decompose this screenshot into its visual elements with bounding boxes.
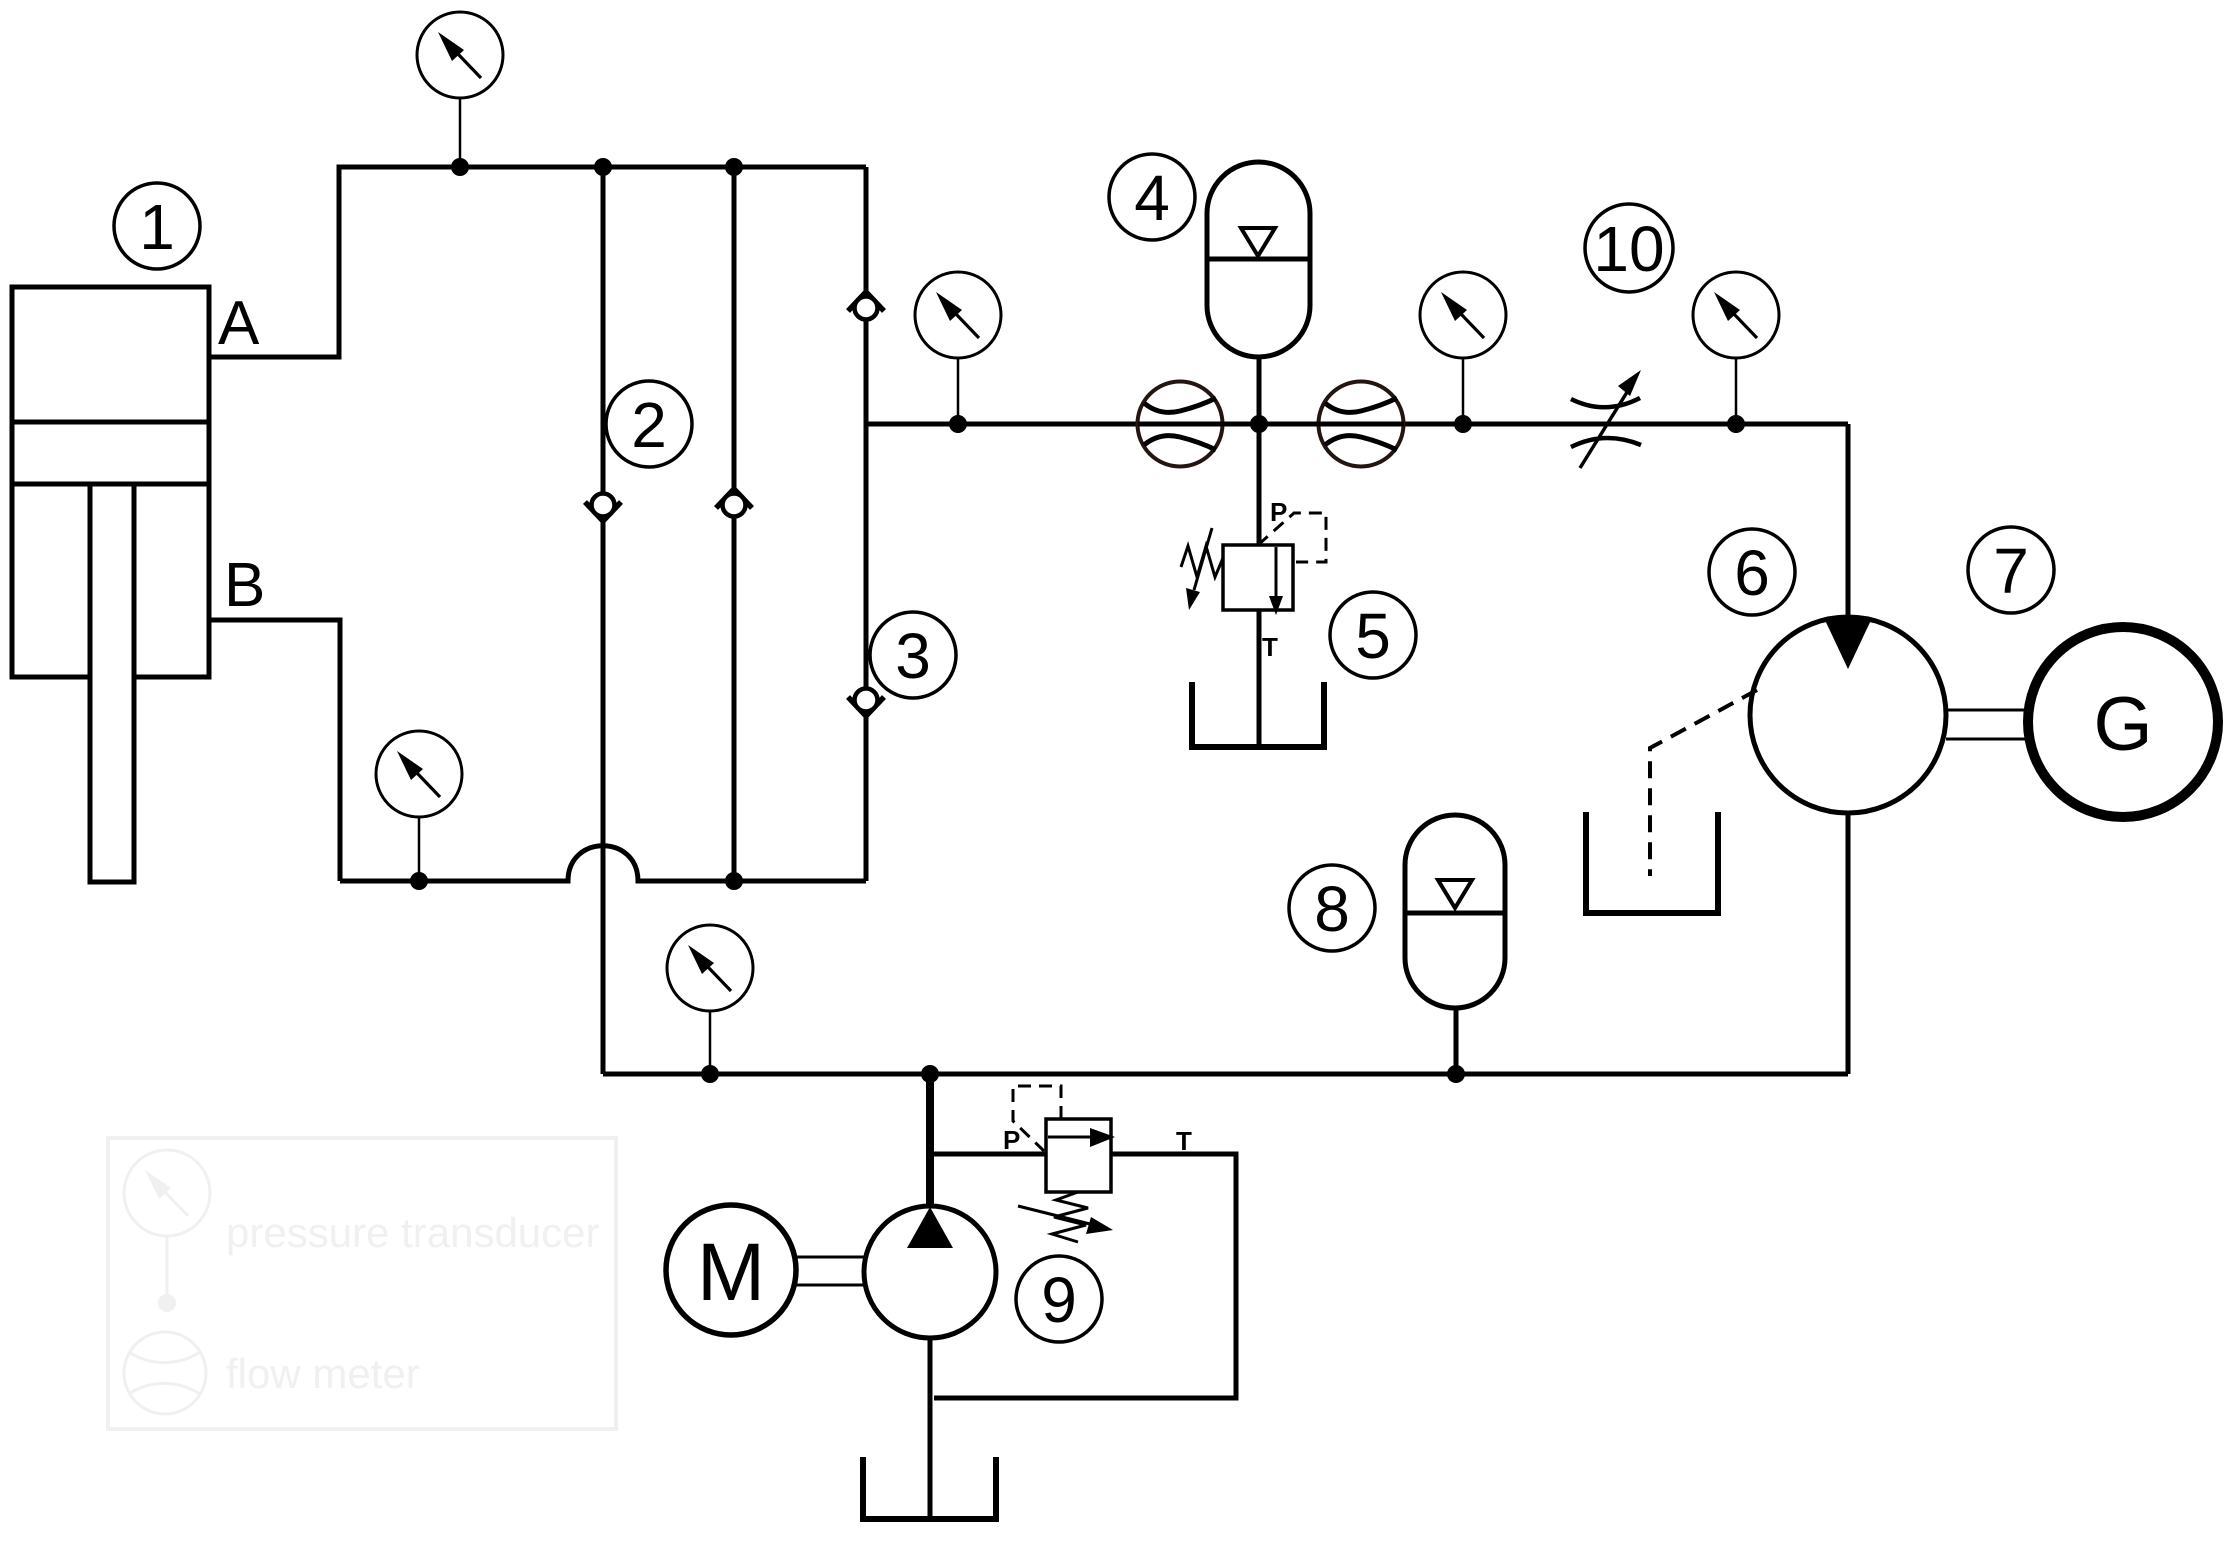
gauge stem node top rail — [459, 98, 462, 167]
variable restrictor 10 adjustment arrow — [1580, 389, 1629, 468]
wire valve 5 to tank — [1257, 610, 1262, 745]
tank symbol under valve 5 — [1192, 682, 1324, 747]
svg-text:7: 7 — [1993, 535, 2029, 607]
electric motor M — [666, 1205, 796, 1335]
wire relief valve 9 P branch — [930, 1152, 1046, 1157]
svg-text:9: 9 — [1041, 1264, 1077, 1336]
relief valve 9 body — [1046, 1119, 1111, 1192]
component label 8 — [1289, 865, 1375, 951]
junction dot mid rail gauge G3 — [1454, 415, 1472, 433]
svg-text:B: B — [224, 551, 265, 620]
hydraulic cylinder 1 — [12, 287, 209, 882]
wire check-valve branch right (x=866) — [864, 167, 869, 881]
flow meter FM1 — [1138, 382, 1223, 467]
svg-text:P: P — [1003, 1125, 1020, 1155]
gauge stem node bottom rail — [709, 1011, 712, 1074]
component label 6 — [1709, 529, 1795, 615]
svg-text:T: T — [1262, 632, 1278, 662]
check valve V1 (left branch) — [585, 494, 621, 522]
junction dot bottom rail gauge G6 — [701, 1065, 719, 1083]
svg-text:M: M — [697, 1227, 765, 1318]
svg-text:pressure transducer: pressure transducer — [226, 1209, 600, 1256]
relief valve 9 flow arrow — [1048, 1128, 1115, 1147]
tank symbol case drain — [1586, 812, 1718, 913]
component label 1 — [114, 183, 200, 269]
component label 7 — [1968, 527, 2054, 613]
svg-text:2: 2 — [631, 389, 667, 461]
pump 9 — [864, 1206, 996, 1338]
svg-text:A: A — [218, 289, 260, 358]
rail segment through flow meters redraw — [1138, 422, 1404, 427]
wire motor 6 outlet down to bottom rail — [1846, 813, 1851, 1074]
svg-text:flow meter: flow meter — [226, 1350, 420, 1397]
junction dot top rail branch middle — [725, 158, 743, 176]
drive shaft motor 6 to generator — [1946, 710, 2029, 739]
svg-text:3: 3 — [895, 620, 931, 692]
pressure transducer gauge G3 — [1420, 272, 1506, 358]
component label 3 — [870, 612, 956, 698]
gauge stem node mid rail left — [957, 358, 960, 424]
wire check-valve branch middle (x=734) — [732, 167, 737, 881]
component label 4 — [1109, 154, 1195, 240]
svg-text:G: G — [2093, 682, 2152, 767]
junction dot mid rail accumulator 4 — [1250, 415, 1268, 433]
variable restrictor 10 — [1571, 398, 1641, 447]
accumulator 8 — [1405, 815, 1505, 1008]
component label 9 — [1016, 1256, 1102, 1342]
wire pump 9 suction to tank — [928, 1338, 933, 1519]
legend flow meter icon — [124, 1332, 206, 1414]
wire relief valve 9 T return loop — [934, 1154, 1236, 1398]
wire check-valve branch left (x=603) — [601, 167, 606, 1074]
svg-text:5: 5 — [1355, 600, 1391, 672]
motor 6 case drain line (dashed) — [1650, 690, 1757, 876]
wire mid rail down to motor 6 inlet — [1846, 424, 1851, 620]
svg-text:4: 4 — [1134, 162, 1170, 234]
svg-text:10: 10 — [1593, 213, 1664, 285]
accumulator 4 — [1207, 162, 1310, 357]
component label 5 — [1330, 592, 1416, 678]
junction dot top rail branch left — [594, 158, 612, 176]
relief valve 5 spring — [1181, 546, 1223, 577]
relief valve 9 adjustment arrow — [1018, 1206, 1113, 1234]
component label 10 — [1585, 204, 1673, 292]
tank symbol under pump 9 — [863, 1457, 996, 1519]
drive shaft motor M to pump 9 — [796, 1257, 866, 1285]
svg-text:T: T — [1176, 1126, 1192, 1156]
svg-text:P: P — [1270, 497, 1287, 527]
svg-text:1: 1 — [139, 191, 175, 263]
hydraulic motor 6 — [1750, 617, 1946, 813]
junction dot bottom rail pump 9 — [921, 1065, 939, 1083]
check valve V3 (right branch upper) — [848, 292, 884, 320]
junction dot mid rail gauge G4 — [1727, 415, 1745, 433]
junction dot B rail middle branch — [725, 872, 743, 890]
generator G 7 — [2028, 627, 2218, 817]
pressure transducer gauge G6 — [667, 925, 753, 1011]
wire bottom rail — [603, 1072, 1848, 1077]
variable restrictor 10 arrowhead — [1618, 370, 1641, 396]
relief valve 5 adjustment arrow — [1186, 528, 1212, 610]
relief valve 5 pilot line (dashed) — [1258, 513, 1326, 562]
gauge stem node B rail — [418, 817, 421, 881]
junction dot mid rail gauge G2 — [949, 415, 967, 433]
wire mid rail — [866, 422, 1848, 427]
pressure transducer gauge G5 — [376, 731, 462, 817]
relief valve 5 flow arrow — [1269, 547, 1283, 615]
pressure transducer gauge G4 — [1693, 272, 1779, 358]
pressure transducer gauge G1 — [417, 12, 503, 98]
wire A port to top rail — [209, 167, 866, 357]
gauge stem node mid rail centre — [1462, 358, 1465, 424]
wire accumulator 8 drop — [1454, 1008, 1459, 1074]
relief valve 5 body — [1223, 545, 1293, 610]
junction dot bottom rail accumulator 8 — [1447, 1065, 1465, 1083]
relief valve 9 pilot line (dashed) — [1013, 1086, 1061, 1151]
gauge stem node mid rail right — [1735, 358, 1738, 424]
relief valve 9 spring — [1052, 1192, 1088, 1242]
wire B port down to B rail — [209, 620, 340, 881]
wire accumulator 4 drop through rail to valve 5 — [1257, 357, 1262, 546]
legend pressure transducer icon — [124, 1150, 210, 1312]
legend box — [108, 1138, 616, 1429]
flow meter FM2 — [1319, 382, 1404, 467]
svg-text:6: 6 — [1734, 537, 1770, 609]
svg-text:8: 8 — [1314, 873, 1350, 945]
component label 2 — [606, 381, 692, 467]
junction dot top rail gauge — [451, 158, 469, 176]
check valve V2 (middle branch) — [716, 489, 752, 517]
wire pump 9 pressure line (heavy) — [926, 1074, 934, 1208]
check valve V4 (right branch lower) — [848, 689, 884, 717]
pressure transducer gauge G2 — [915, 272, 1001, 358]
junction dot B rail gauge — [410, 872, 428, 890]
wire B rail with hop over vertical line — [340, 846, 866, 881]
